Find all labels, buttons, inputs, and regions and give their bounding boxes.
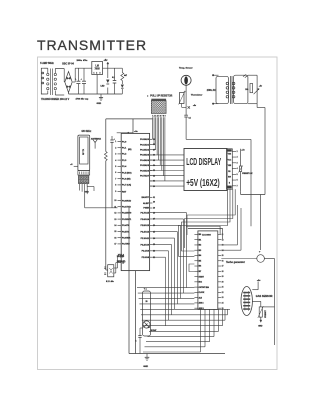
svg-text:5: 5 (115, 166, 116, 168)
svg-text:230v AC: 230v AC (207, 89, 216, 92)
svg-text:P3.0/RXD: P3.0/RXD (122, 200, 132, 202)
svg-text:ADC0808: ADC0808 (202, 233, 212, 236)
svg-text:(89): (89) (128, 149, 132, 151)
svg-text:PRESET: PRESET (265, 309, 267, 317)
svg-text:2: 2 (115, 147, 116, 149)
svg-text:P2.0/A8: P2.0/A8 (142, 256, 150, 259)
svg-text:29: 29 (153, 208, 155, 210)
svg-text:IN3: IN3 (199, 250, 202, 252)
svg-text:+5v: +5v (259, 85, 262, 87)
svg-text:17: 17 (114, 244, 116, 246)
svg-text:LED: LED (101, 86, 106, 88)
svg-text:PULL UP RESISTOR: PULL UP RESISTOR (150, 95, 172, 97)
svg-text:0.1: 0.1 (189, 118, 191, 120)
svg-text:7: 7 (237, 185, 238, 187)
svg-text:433 MHz: 433 MHz (81, 130, 92, 133)
svg-text:IN0: IN0 (199, 234, 202, 236)
svg-text:4: 4 (115, 159, 116, 162)
svg-text:P0.5/AD5: P0.5/AD5 (140, 164, 150, 167)
svg-text:ANTENNA: ANTENNA (91, 137, 102, 140)
svg-text:16: 16 (114, 237, 116, 239)
svg-text:P0.4/AD4: P0.4/AD4 (140, 159, 150, 162)
svg-text:P3.5/T1: P3.5/T1 (122, 231, 130, 233)
svg-text:18: 18 (122, 256, 124, 258)
svg-text:14: 14 (114, 224, 116, 227)
svg-text:11: 11 (114, 206, 116, 208)
svg-text:ALE/P: ALE/P (143, 202, 150, 205)
svg-text:21: 21 (222, 287, 224, 289)
svg-text:4k7: 4k7 (124, 74, 127, 77)
svg-text:P0.7/AD7: P0.7/AD7 (140, 175, 150, 178)
svg-text:6: 6 (237, 180, 238, 182)
svg-text:23: 23 (222, 297, 224, 299)
svg-text:16: 16 (222, 260, 224, 262)
svg-text:+5: +5 (70, 164, 72, 166)
svg-text:PRESET 10K: PRESET 10K (242, 173, 253, 175)
svg-text:1: 1 (94, 73, 95, 75)
svg-text:2: 2 (96, 73, 97, 75)
svg-text:11: 11 (222, 234, 224, 236)
svg-text:P3.2/INT0: P3.2/INT0 (122, 213, 132, 215)
svg-text:2: 2 (237, 157, 238, 159)
svg-text:P0.2/AD2: P0.2/AD2 (140, 149, 150, 152)
svg-text:1000u: 1000u (77, 60, 83, 62)
svg-text:P2.6/A14: P2.6/A14 (140, 218, 149, 221)
svg-text:P3.3/INT1: P3.3/INT1 (122, 219, 132, 221)
svg-text:IN2: IN2 (199, 245, 202, 247)
svg-text:+5V (16X2): +5V (16X2) (186, 178, 220, 189)
svg-text:12: 12 (114, 213, 116, 215)
svg-text:Temp. Sensor: Temp. Sensor (179, 67, 193, 70)
svg-text:P1.7 (CK): P1.7 (CK) (122, 185, 131, 187)
svg-text:7: 7 (115, 178, 116, 180)
svg-text:TRANSFORMER 230-12 V: TRANSFORMER 230-12 V (41, 98, 70, 101)
svg-text:GND: GND (258, 326, 263, 328)
svg-text:LM: LM (95, 66, 98, 68)
svg-text:30: 30 (153, 202, 155, 204)
svg-text:P3.1/TXD: P3.1/TXD (122, 207, 131, 209)
svg-text:BC547: BC547 (151, 329, 157, 332)
svg-text:CLOCK: CLOCK (199, 292, 206, 294)
svg-text:15: 15 (114, 231, 116, 233)
svg-text:8.2 k Ms: 8.2 k Ms (106, 281, 115, 283)
svg-text:IN7: IN7 (199, 271, 202, 273)
svg-text:19: 19 (222, 276, 224, 278)
svg-text:GND: GND (143, 366, 148, 368)
svg-text:5: 5 (237, 174, 238, 176)
svg-text:13: 13 (222, 245, 224, 247)
svg-text:0.1: 0.1 (112, 77, 115, 79)
svg-text:9: 9 (115, 191, 116, 193)
svg-text:5 AMP 50Hz: 5 AMP 50Hz (40, 62, 54, 65)
svg-text:3: 3 (100, 73, 101, 75)
svg-text:RF TX: RF TX (83, 148, 85, 155)
svg-text:P2.4/A12: P2.4/A12 (140, 231, 149, 234)
svg-text:3: 3 (115, 154, 116, 156)
svg-text:4700 35v cap: 4700 35v cap (76, 98, 90, 101)
svg-text:10: 10 (114, 200, 116, 202)
svg-text:P0.6/AD6: P0.6/AD6 (140, 169, 150, 172)
svg-text:EA/VPP: EA/VPP (141, 196, 149, 199)
svg-text:Thermistor: Thermistor (191, 93, 203, 96)
svg-text:P2.5/A13: P2.5/A13 (140, 224, 149, 227)
svg-text:20: 20 (222, 281, 224, 283)
svg-text:22: 22 (222, 292, 224, 294)
svg-text:P2.3/A11: P2.3/A11 (141, 237, 150, 240)
svg-text:P3.6/WR: P3.6/WR (122, 238, 131, 240)
svg-text:P2.2/A10: P2.2/A10 (140, 243, 149, 246)
svg-text:3: 3 (237, 162, 238, 164)
svg-text:IN6: IN6 (199, 266, 202, 268)
svg-text:31: 31 (153, 197, 155, 199)
svg-text:P3.4/T0: P3.4/T0 (122, 224, 130, 227)
svg-text:GAS SENSOR: GAS SENSOR (256, 295, 273, 298)
svg-text:IN1: IN1 (199, 239, 202, 241)
svg-text:P2.7/A15: P2.7/A15 (140, 211, 149, 214)
svg-text:GND: GND (97, 103, 102, 105)
svg-text:P3.7/RD: P3.7/RD (122, 244, 130, 246)
svg-text:25: 25 (146, 301, 148, 303)
svg-text:13: 13 (114, 219, 116, 221)
svg-text:LCD DISPLAY: LCD DISPLAY (186, 157, 221, 168)
svg-text:15: 15 (222, 255, 224, 257)
svg-text:7805: 7805 (95, 69, 101, 71)
svg-text:IN5: IN5 (199, 260, 202, 262)
svg-text:GBC 3F-04: GBC 3F-04 (62, 62, 74, 65)
svg-text:P0.0/AD0: P0.0/AD0 (140, 138, 150, 141)
svg-text:Tacho generator: Tacho generator (226, 261, 245, 264)
svg-text:GND: GND (84, 191, 89, 193)
svg-text:PSEN: PSEN (143, 208, 149, 210)
svg-text:P1.6 (MI): P1.6 (MI) (122, 179, 131, 181)
svg-text:P2.1/A9: P2.1/A9 (142, 250, 150, 253)
svg-text:4: 4 (237, 167, 238, 170)
svg-text:P0.3/AD3: P0.3/AD3 (140, 154, 150, 157)
svg-text:1: 1 (115, 141, 116, 143)
svg-text:P0.1/AD1: P0.1/AD1 (140, 143, 150, 146)
svg-text:1: 1 (237, 151, 238, 153)
svg-text:12: 12 (222, 239, 224, 241)
svg-text:17: 17 (222, 266, 224, 268)
svg-text:8: 8 (115, 185, 116, 187)
svg-text:RW: RW (228, 177, 231, 179)
svg-text:P1.5 (MO): P1.5 (MO) (122, 172, 132, 174)
svg-text:18: 18 (222, 271, 224, 273)
svg-text:6: 6 (115, 172, 116, 174)
svg-text:9: 9 (165, 115, 166, 117)
svg-text:19: 19 (122, 262, 124, 264)
